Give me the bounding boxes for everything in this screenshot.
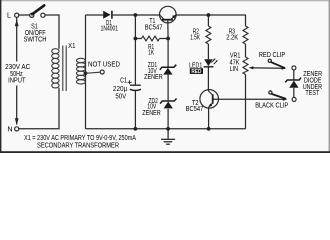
- wire C1 column upper: [134, 15, 136, 85]
- wire secondary column: [85, 15, 87, 129]
- NOT USED tap: [84, 62, 120, 76]
- junction node T2 emitter rail: [207, 127, 211, 131]
- junction node R1 left: [134, 37, 138, 41]
- caption: [24, 135, 136, 149]
- resistor R3 2.2K: [226, 26, 248, 44]
- zener ZD1 10V: [144, 62, 176, 81]
- wire switch to transformer primary top: [45, 15, 59, 49]
- zener ZD2 10V: [142, 98, 176, 117]
- junction node C1 bottom rail: [134, 127, 138, 131]
- svg-text:220µ: 220µ: [113, 86, 127, 93]
- resistor R1 1K: [142, 36, 160, 56]
- svg-text:NOT USED: NOT USED: [88, 62, 120, 69]
- ground: [161, 129, 175, 144]
- svg-text:TEST: TEST: [305, 90, 320, 97]
- svg-text:INPUT: INPUT: [8, 78, 26, 85]
- wire secondary top rail to D1: [86, 14, 104, 16]
- svg-text:BLACK CLIP: BLACK CLIP: [255, 103, 288, 110]
- wire T1 to R3 corner: [176, 15, 245, 26]
- svg-text:BC547: BC547: [145, 24, 163, 31]
- svg-text:LIN: LIN: [230, 66, 238, 73]
- switch S1: [24, 5, 47, 43]
- LED LED1 RED: [189, 58, 218, 74]
- svg-text:L: L: [7, 11, 11, 20]
- wire bottom ground rail: [86, 128, 246, 130]
- wire T1 base lead: [167, 20, 169, 38]
- svg-text:SWITCH: SWITCH: [24, 36, 47, 43]
- wire bottom rail N side: [19, 88, 59, 129]
- wire R2 to LED1: [207, 44, 209, 59]
- wire VR1 bottom to rail: [245, 75, 247, 129]
- node L: [7, 11, 19, 20]
- resistor R2 1.5K: [190, 26, 211, 44]
- svg-text:1.5K: 1.5K: [190, 35, 200, 42]
- junction node D1 output: [134, 13, 138, 17]
- junction node R2 top: [207, 13, 211, 17]
- wire VR1 wiper to red clip: [253, 67, 284, 69]
- wire DUT bottom lead: [293, 88, 295, 98]
- wire AC input lower: [16, 86, 18, 125]
- svg-text:1K: 1K: [148, 49, 154, 56]
- transistor T1 BC547: [145, 6, 176, 31]
- svg-text:RED CLIP: RED CLIP: [259, 52, 286, 59]
- diode D1 1N4001: [101, 11, 119, 33]
- capacitor C1 220u 50V: [113, 78, 141, 101]
- AC input arrows and label 230V AC 50Hz INPUT: [5, 19, 30, 125]
- wire ZD column: [167, 39, 169, 67]
- junction node ground rail: [166, 127, 170, 131]
- svg-text:N: N: [7, 125, 12, 134]
- svg-text:C1: C1: [120, 78, 127, 85]
- junction node R1 right / T1 base: [166, 37, 170, 41]
- svg-text:ZENER: ZENER: [144, 74, 163, 81]
- wire L to switch: [19, 14, 30, 16]
- svg-text:ZENER: ZENER: [142, 110, 161, 117]
- wire R3 to VR1: [245, 44, 247, 57]
- black clip: [255, 91, 288, 110]
- red clip: [259, 52, 287, 70]
- potentiometer VR1 47K LIN: [230, 53, 254, 75]
- svg-text:RED: RED: [191, 69, 201, 75]
- svg-text:SECONDARY TRANSFORMER: SECONDARY TRANSFORMER: [37, 142, 119, 149]
- transformer X1: [52, 46, 86, 92]
- wire D1 to T1: [113, 14, 160, 16]
- svg-text:X1: X1: [68, 43, 76, 50]
- svg-text:2.2K: 2.2K: [226, 35, 238, 42]
- wire AC input upper: [16, 18, 18, 62]
- wire DUT top lead: [293, 70, 295, 80]
- svg-text:X1 = 230V AC PRIMARY TO 9V-0-9: X1 = 230V AC PRIMARY TO 9V-0-9V, 250mA: [24, 135, 136, 142]
- wire R2 top lead: [207, 15, 209, 26]
- wire R1 leads: [135, 38, 141, 40]
- wire LED1 to T2: [207, 67, 209, 91]
- svg-text:BC547: BC547: [186, 106, 204, 113]
- svg-text:1N4001: 1N4001: [101, 26, 119, 33]
- node N: [7, 125, 18, 134]
- transistor T2 BC547: [186, 90, 219, 113]
- wire T2 emitter to rail: [208, 107, 210, 129]
- wire T2 base to black clip: [213, 98, 284, 100]
- svg-text:50V: 50V: [115, 94, 126, 101]
- zener diode under test: [285, 66, 322, 102]
- wire C1 column lower: [134, 91, 136, 129]
